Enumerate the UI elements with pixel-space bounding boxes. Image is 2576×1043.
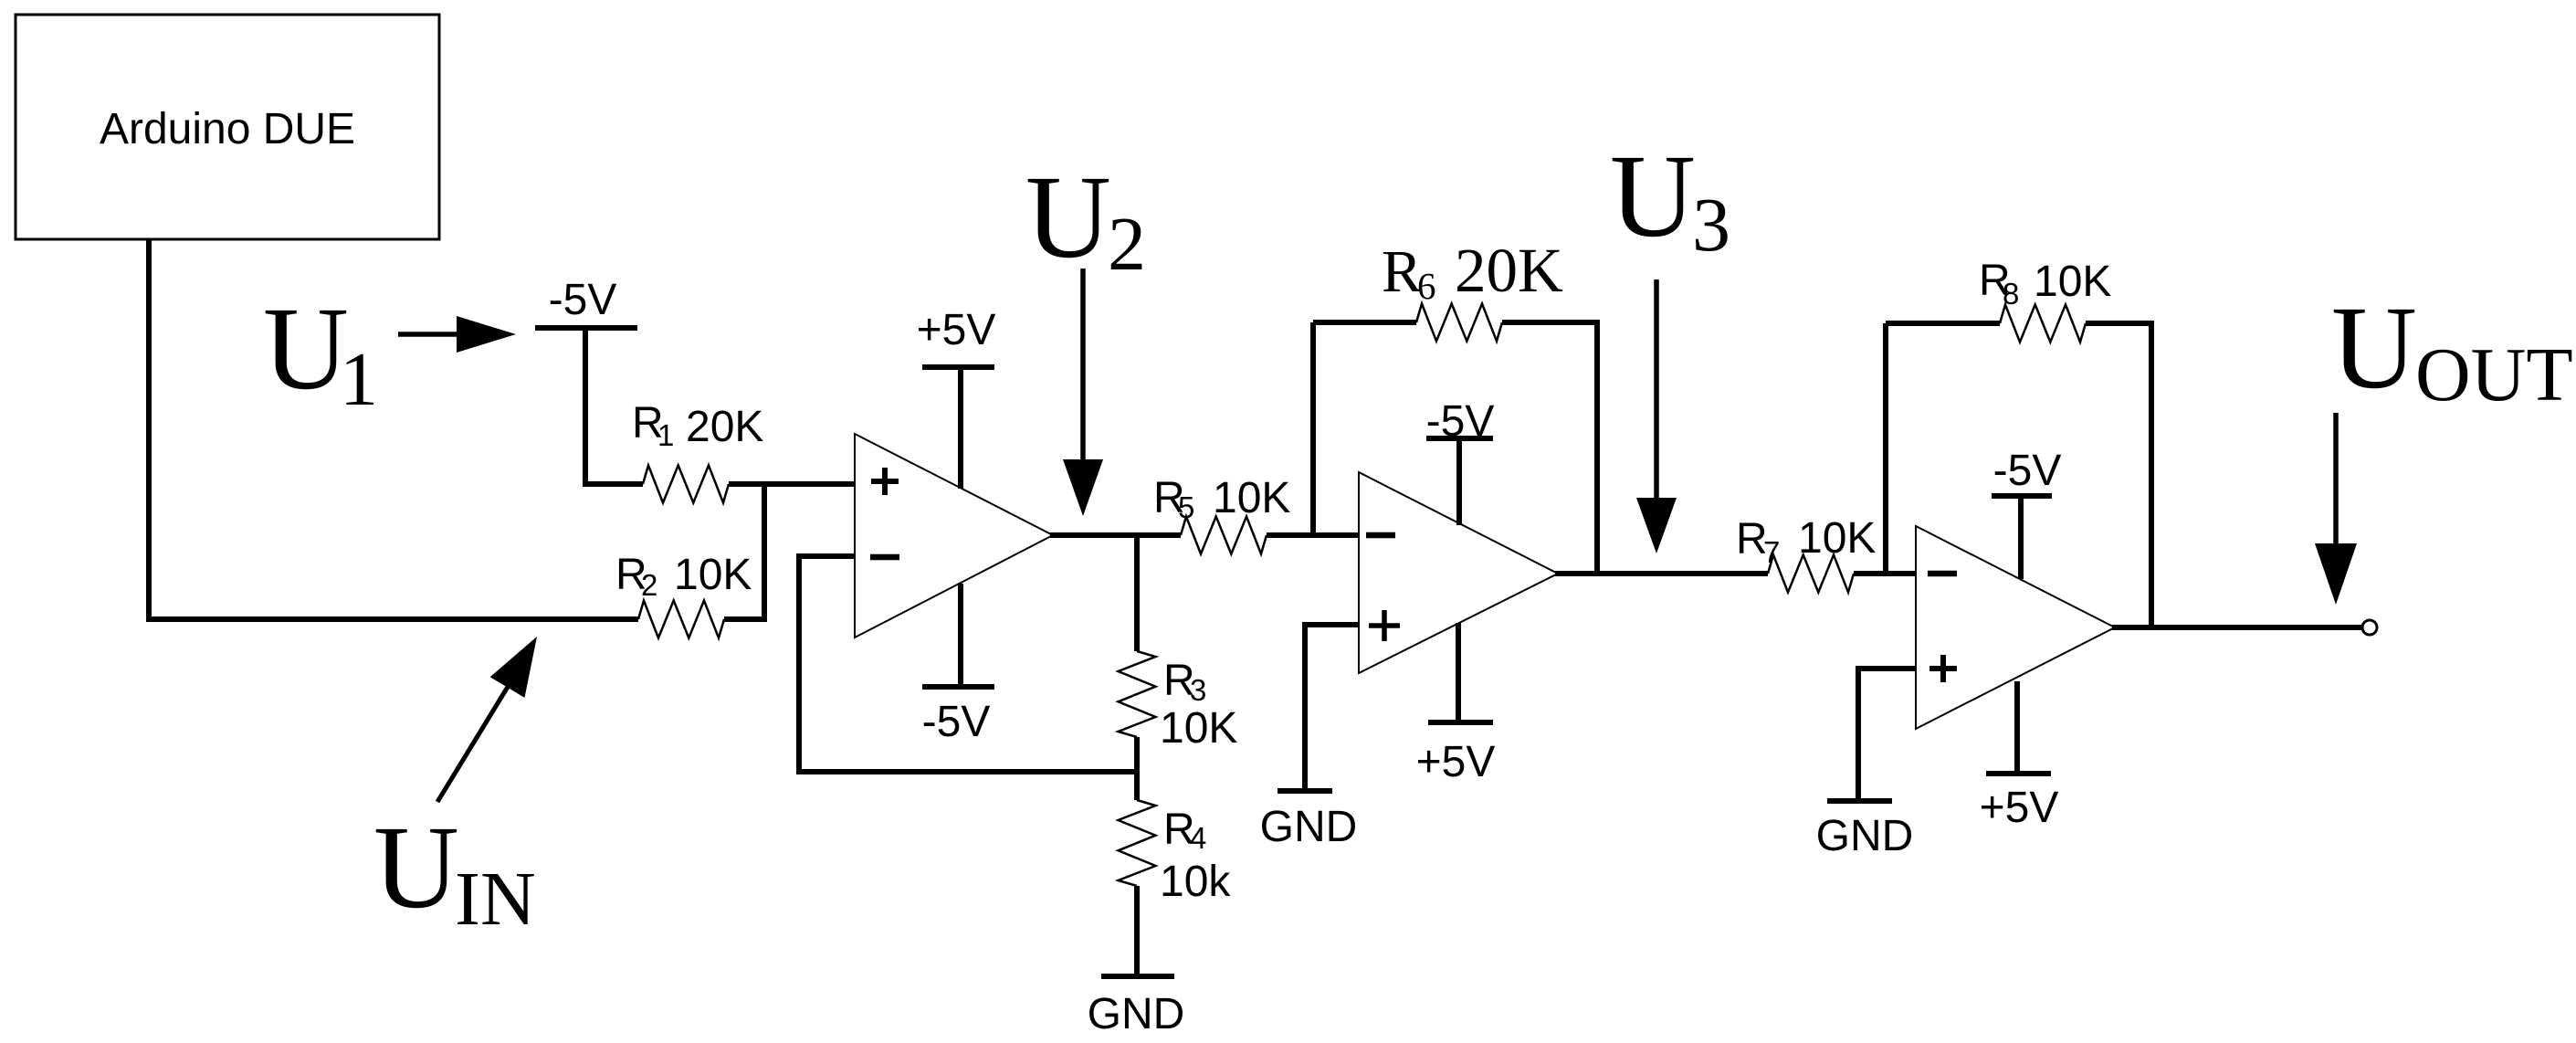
resistor R2 bbox=[638, 601, 724, 638]
wire R8 feedback left vertical bbox=[1883, 323, 1888, 574]
svg-text:R: R bbox=[1382, 238, 1422, 305]
svg-text:20K: 20K bbox=[1455, 236, 1563, 305]
ground GND op-amp3 bbox=[1827, 798, 1892, 804]
svg-text:GND: GND bbox=[1088, 990, 1185, 1038]
wire R8 feedback right vertical bbox=[2086, 323, 2151, 627]
wire from Arduino DUE to R2 (node UIN) bbox=[149, 239, 638, 619]
wire R7 to op-amp3 minus input bbox=[1854, 571, 1916, 576]
wire -5V stem to R1 bbox=[585, 328, 643, 484]
wire R6 feedback top left bbox=[1313, 320, 1416, 325]
svg-text:3: 3 bbox=[1692, 183, 1730, 268]
op-amp2 plus pin bbox=[1369, 610, 1400, 641]
svg-text:5: 5 bbox=[1178, 490, 1194, 524]
wire R3 to R4 junction bbox=[1134, 737, 1140, 800]
svg-text:2: 2 bbox=[641, 568, 657, 602]
svg-text:6: 6 bbox=[1417, 265, 1436, 307]
svg-text:IN: IN bbox=[455, 857, 536, 942]
svg-text:GND: GND bbox=[1260, 803, 1358, 851]
svg-text:-5V: -5V bbox=[922, 698, 991, 746]
svg-text:10K: 10K bbox=[1160, 704, 1237, 753]
wire R1 to op-amp U1 plus input bbox=[729, 481, 855, 487]
wire op-amp2 output (node U3) bbox=[1555, 571, 1768, 576]
resistor R3 bbox=[1119, 651, 1156, 737]
wire op-amp3 plus input to ground bbox=[1858, 669, 1916, 801]
wire junction vertical R1/R2 to op-amp input bbox=[762, 484, 767, 622]
node UIN arrow bbox=[437, 687, 508, 802]
wire op-amp2 plus input to ground bbox=[1305, 625, 1359, 791]
resistor R5 bbox=[1181, 517, 1267, 554]
wire R4 to ground bbox=[1134, 886, 1140, 976]
svg-text:8: 8 bbox=[2003, 277, 2019, 311]
power -5V supply op-amp1 bbox=[922, 584, 994, 687]
wire R2 right lead to junction bbox=[724, 616, 764, 622]
power +5V supply op-amp2 bbox=[1428, 623, 1493, 722]
wire op-amp3 output to UOUT terminal bbox=[2112, 625, 2362, 630]
op-amp1 plus pin bbox=[871, 468, 899, 495]
svg-text:4: 4 bbox=[1190, 821, 1206, 855]
resistor R8 bbox=[2000, 305, 2086, 342]
svg-text:+5V: +5V bbox=[917, 306, 996, 354]
svg-text:U: U bbox=[373, 802, 459, 933]
resistor R4 bbox=[1119, 800, 1156, 886]
svg-text:-5V: -5V bbox=[1993, 447, 2062, 495]
svg-text:U: U bbox=[1610, 131, 1696, 262]
power -5V supply bar (U1 node) bbox=[535, 325, 637, 331]
svg-text:+5V: +5V bbox=[1416, 738, 1496, 786]
op-amp 1 bbox=[855, 434, 1053, 637]
wire node U2 down to R3 bbox=[1134, 535, 1140, 651]
op-amp3 minus pin bbox=[1928, 571, 1957, 577]
svg-text:1: 1 bbox=[657, 418, 674, 452]
Arduino DUE block bbox=[16, 15, 439, 239]
wire op-amp1 output (node U2) bbox=[1050, 532, 1181, 538]
op-amp 3 bbox=[1916, 526, 2115, 729]
wire R5 to op-amp2 minus input bbox=[1267, 532, 1359, 538]
svg-text:10K: 10K bbox=[2034, 258, 2111, 306]
svg-text:3: 3 bbox=[1190, 673, 1206, 707]
svg-text:GND: GND bbox=[1816, 812, 1914, 860]
svg-text:-5V: -5V bbox=[1426, 397, 1495, 446]
svg-text:7: 7 bbox=[1763, 535, 1780, 569]
wire R6 feedback left vertical bbox=[1310, 322, 1316, 535]
node U2 arrow bbox=[1080, 269, 1086, 464]
node UOUT open terminal bbox=[2362, 620, 2377, 635]
svg-text:10K: 10K bbox=[1798, 514, 1876, 563]
op-amp3 plus pin bbox=[1929, 655, 1957, 682]
power -5V supply op-amp2 bbox=[1426, 438, 1493, 525]
svg-text:-5V: -5V bbox=[549, 276, 617, 324]
svg-text:U: U bbox=[2331, 282, 2417, 414]
power +5V supply op-amp3 bbox=[1986, 681, 2051, 774]
svg-text:U: U bbox=[1025, 152, 1111, 283]
resistor R7 bbox=[1768, 555, 1854, 593]
svg-text:10K: 10K bbox=[674, 551, 752, 599]
svg-text:10k: 10k bbox=[1160, 858, 1231, 906]
node U3 arrow bbox=[1654, 279, 1659, 502]
svg-text:10K: 10K bbox=[1213, 474, 1290, 522]
wire op-amp1 minus input feedback bbox=[799, 556, 1137, 772]
svg-text:+5V: +5V bbox=[1980, 784, 2059, 832]
svg-text:2: 2 bbox=[1108, 202, 1146, 287]
node U1 arrow bbox=[398, 332, 461, 337]
ground GND below R4 bbox=[1101, 974, 1174, 979]
svg-text:U: U bbox=[263, 283, 349, 415]
svg-text:Arduino DUE: Arduino DUE bbox=[100, 105, 355, 153]
wire R8 feedback top left bbox=[1886, 321, 2000, 326]
svg-text:1: 1 bbox=[340, 337, 378, 422]
power +5V supply op-amp1 bbox=[922, 367, 994, 489]
op-amp 2 bbox=[1359, 472, 1558, 673]
power -5V supply op-amp3 bbox=[1992, 496, 2052, 579]
svg-text:OUT: OUT bbox=[2415, 332, 2573, 417]
op-amp2 minus pin bbox=[1366, 532, 1395, 539]
ground GND op-amp2 bbox=[1277, 788, 1332, 794]
resistor R6 bbox=[1416, 304, 1502, 342]
wire R6 feedback right vertical bbox=[1502, 322, 1597, 574]
resistor R1 bbox=[643, 466, 729, 503]
node UOUT arrow bbox=[2333, 413, 2339, 548]
op-amp1 minus pin bbox=[870, 554, 899, 561]
svg-text:20K: 20K bbox=[686, 403, 763, 451]
